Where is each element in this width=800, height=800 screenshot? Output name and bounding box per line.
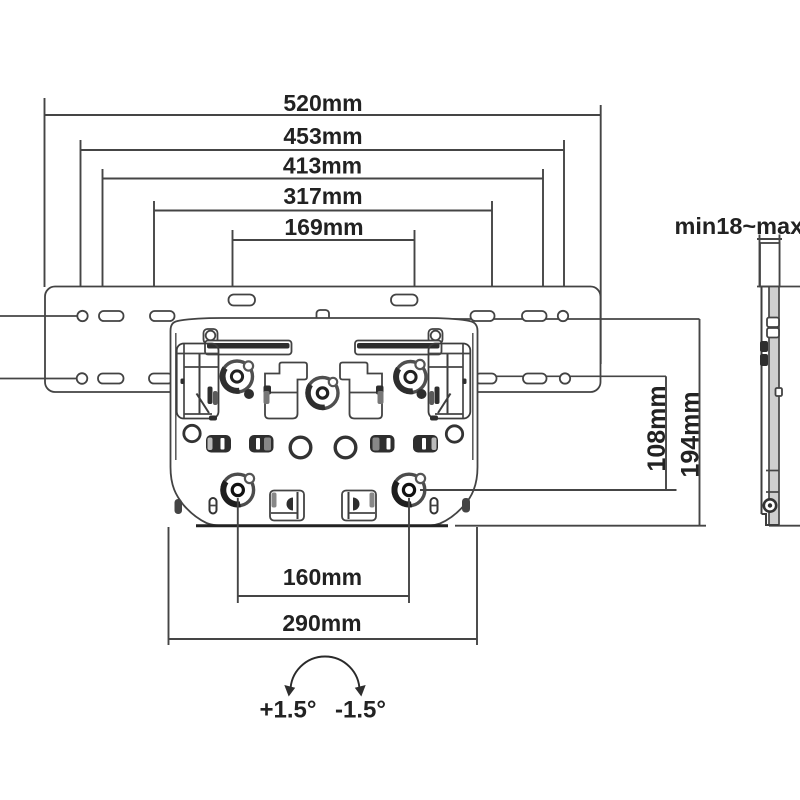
bracket bottom heavy edge [196, 524, 448, 527]
plate slot [475, 374, 497, 384]
side view profile [757, 243, 800, 525]
side view bracket face [761, 287, 763, 515]
top rail left [205, 341, 292, 355]
plate slot [522, 311, 547, 321]
side view clamp block upper [760, 341, 768, 352]
staple cutout top-right [340, 363, 384, 419]
plate slot [523, 374, 547, 384]
dimension 194mm vertical [455, 319, 706, 526]
dimension 520mm [45, 90, 601, 364]
svg-text:317mm: 317mm [283, 183, 362, 209]
tilt arc arrow [284, 657, 365, 697]
side ref line bottom-right [769, 525, 800, 527]
latch corner left [177, 344, 219, 421]
side view clamp block lower [760, 354, 768, 366]
knob top-left [222, 361, 255, 399]
plate slot [99, 311, 124, 321]
dimension 290mm [169, 527, 478, 645]
svg-text:+1.5°: +1.5° [260, 697, 317, 724]
small slot inner-left [210, 498, 217, 514]
side view hook lower [767, 328, 779, 338]
svg-text:169mm: 169mm [284, 214, 363, 240]
plate slot [149, 374, 173, 384]
plug 4 [413, 435, 438, 453]
staple cutout bottom-right [342, 491, 376, 521]
plate center tab [317, 310, 330, 321]
plug 1 [206, 435, 231, 453]
svg-text:194mm: 194mm [677, 391, 705, 477]
dimension 169mm [233, 214, 415, 296]
knob bottom-left [222, 474, 254, 506]
bracket inner edge left [175, 333, 177, 460]
plate slot [150, 311, 175, 321]
ring left [290, 437, 311, 458]
knob top-right [395, 360, 427, 399]
wall plate outline [45, 287, 601, 393]
bracket plate outline [171, 318, 478, 526]
svg-text:108mm: 108mm [643, 385, 671, 471]
svg-text:520mm: 520mm [283, 90, 362, 116]
top rail right [355, 341, 442, 355]
side view screw [764, 499, 776, 511]
staple cutout top-left [264, 363, 308, 419]
dimension 453mm [81, 123, 565, 311]
open circle mid-right [446, 426, 462, 442]
plate hole circle bottom-right [560, 373, 570, 383]
knob bottom-right [393, 474, 425, 506]
staple cutout bottom-left [270, 491, 304, 521]
dimension 108mm vertical [420, 376, 677, 490]
side view plate slab [769, 287, 779, 525]
svg-text:453mm: 453mm [283, 123, 362, 149]
dark edge slot right [462, 498, 470, 513]
hole row centerline bottom [0, 378, 77, 380]
bracket inner edge right [472, 333, 474, 460]
plate upper slot left [229, 295, 256, 306]
open circle mid-left [184, 425, 200, 441]
hole row centerline top [0, 315, 77, 317]
small slot inner-right [431, 498, 438, 514]
dimension 317mm [154, 183, 492, 311]
svg-text:min18~max: min18~max [675, 213, 800, 239]
dimension 160mm [238, 498, 409, 603]
side view top tab [760, 243, 780, 287]
plate hole circle bottom-left [77, 373, 88, 384]
side view hook upper [767, 318, 779, 328]
svg-text:-1.5°: -1.5° [335, 697, 386, 724]
plate slot [471, 311, 495, 321]
plate upper slot right [391, 295, 418, 306]
plate hole circle top-right [558, 311, 568, 321]
plate hole circle top-left [77, 311, 87, 321]
dimension 413mm [103, 153, 544, 312]
svg-text:290mm: 290mm [282, 610, 361, 636]
depth dimension [757, 235, 782, 287]
ring right [335, 437, 356, 458]
svg-text:160mm: 160mm [283, 564, 362, 590]
svg-text:413mm: 413mm [283, 153, 362, 179]
side view foot [762, 514, 780, 525]
dark edge slot left [175, 499, 183, 514]
knob center [307, 378, 338, 409]
plug 3 [370, 435, 395, 453]
plug 2 [249, 435, 274, 453]
latch corner right [429, 344, 471, 421]
plate slot [98, 374, 124, 384]
top tab left [204, 329, 218, 344]
top tab right [429, 329, 443, 344]
